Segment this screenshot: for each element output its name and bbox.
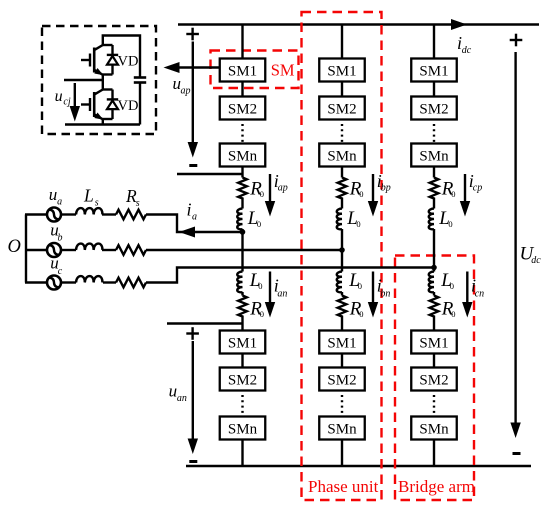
dotted continuation (leg b lower) (341, 395, 343, 415)
svg-text:SM2: SM2 (327, 373, 356, 389)
svg-text:0: 0 (358, 281, 362, 291)
ac source u_a (47, 208, 61, 222)
wire R0-L0 (leg a upper) (241, 200, 243, 209)
svg-text:SM1: SM1 (327, 64, 356, 80)
node b junction (339, 247, 345, 253)
wire: top bus to SM1 (leg c) (433, 25, 435, 59)
svg-text:bn: bn (380, 288, 390, 299)
resistor Rs (phase b) (116, 245, 146, 255)
SMn box (leg b lower) (319, 417, 365, 440)
svg-text:VD: VD (118, 54, 139, 70)
wire SM1-SM2 (leg c lower) (433, 354, 435, 368)
svg-text:cp: cp (473, 183, 482, 194)
svg-text:SMn: SMn (228, 149, 258, 165)
resistor Rs (phase a) (116, 210, 146, 220)
wire SM1-SM2 (leg b upper) (341, 82, 343, 97)
wire L0-R0 (leg b lower) (341, 292, 343, 296)
svg-text:ap: ap (278, 183, 288, 194)
SMn box (leg a upper) (220, 144, 266, 167)
current arrow i_cn (466, 272, 468, 305)
SM1 box (leg b lower) (319, 331, 365, 354)
svg-text:SM1: SM1 (228, 336, 257, 352)
current arrowhead i_a (179, 227, 195, 238)
inductor L0 (leg a lower) (237, 272, 242, 293)
wire SMn-bottom bus (leg a) (241, 440, 243, 467)
inductor L0 (leg b upper) (337, 209, 342, 230)
svg-text:an: an (277, 288, 287, 299)
inductor L0 (leg b lower) (337, 272, 342, 293)
tap bar lower (leg a) (167, 322, 243, 324)
plus terminal u_an (186, 327, 199, 340)
resistor Rs (phase c) (116, 278, 146, 288)
SM2 box (leg b upper) (319, 97, 365, 120)
wire R0-L0 (leg b upper) (341, 200, 343, 209)
dotted continuation (leg c upper) (433, 124, 435, 142)
SM1 box (leg c lower) (411, 331, 457, 354)
svg-text:SM1: SM1 (327, 336, 356, 352)
svg-text:0: 0 (260, 309, 264, 319)
wire R0-SM1 (leg c lower) (433, 318, 435, 331)
inductor L0 (leg c upper) (429, 209, 434, 230)
SMn box (leg a lower) (220, 417, 266, 440)
svg-text:VD: VD (118, 98, 139, 114)
wire Rs to node c (phase c) (146, 268, 434, 283)
wire source b to Ls (61, 249, 77, 251)
svg-text:0: 0 (257, 219, 261, 229)
inductor Ls (phase c) (76, 276, 102, 282)
svg-text:s: s (95, 197, 99, 208)
SM1 box (leg a upper) (220, 59, 266, 82)
SM2 box (leg a upper) (220, 97, 266, 120)
inductor L0 (leg a upper) (237, 209, 242, 230)
svg-text:b: b (58, 232, 63, 243)
red dashed box Phase unit (302, 12, 382, 500)
wire Ls to Rs (phase a) (102, 213, 116, 215)
bottom DC bus (186, 465, 531, 468)
svg-text:SMn: SMn (228, 422, 258, 438)
svg-text:u: u (49, 185, 58, 204)
diode VD1 (103, 45, 118, 75)
submodule detail dashed box (42, 26, 156, 134)
svg-text:s: s (136, 198, 140, 209)
current arrow i_ap (269, 174, 271, 203)
svg-text:SM1: SM1 (228, 64, 257, 80)
wire source a to Ls (61, 213, 77, 215)
svg-text:0: 0 (451, 189, 455, 199)
wire SMn-R0 (leg b upper) (341, 167, 343, 178)
minus terminal bottom right (513, 452, 521, 455)
wire SM1-SM2 (leg c upper) (433, 82, 435, 97)
wire Rs to node b (146, 249, 342, 251)
svg-text:SMn: SMn (327, 422, 357, 438)
SMn box (leg b upper) (319, 144, 365, 167)
svg-text:0: 0 (448, 219, 452, 229)
SM1 box (leg a lower) (220, 331, 266, 354)
red dashed box SM (211, 51, 299, 89)
node c junction (431, 265, 437, 271)
u_ap measurement arrow (192, 42, 194, 146)
U_dc measurement arrow (514, 52, 516, 425)
svg-text:0: 0 (260, 189, 264, 199)
wire R0-SM1 (leg b lower) (341, 318, 343, 331)
wire Ls to Rs (phase b) (102, 249, 116, 251)
svg-text:Phase unit: Phase unit (308, 477, 379, 496)
wire SM1-SM2 (leg a lower) (241, 354, 243, 368)
wire L0-junction (leg c) (433, 229, 435, 272)
wire SM1-SM2 (leg b lower) (341, 354, 343, 368)
dotted continuation (leg a lower) (241, 395, 243, 415)
wire: inset top rail (103, 36, 140, 78)
pointer arrow SM1 to detail (176, 66, 220, 68)
svg-text:0: 0 (356, 219, 360, 229)
svg-text:cn: cn (475, 288, 484, 299)
svg-text:a: a (57, 197, 62, 208)
SM2 box (leg a lower) (220, 368, 266, 391)
wire L0-junction (leg a) (241, 229, 243, 272)
wire SMn-bottom bus (leg c) (433, 440, 435, 467)
SM1 box (leg c upper) (411, 59, 457, 82)
ac source u_c (47, 276, 61, 290)
capacitor C (134, 78, 146, 125)
SM1 box (leg b upper) (319, 59, 365, 82)
wire Rs to bend (phase a) (146, 215, 243, 233)
node a junction (240, 229, 246, 235)
u_cj measurement arrow (74, 83, 76, 109)
wire Ls to Rs (phase c) (103, 281, 116, 283)
svg-text:dc: dc (531, 255, 541, 266)
resistor R0 (leg a lower) (238, 296, 247, 318)
wire: top bus to SM1 (leg a) (241, 25, 243, 59)
left neutral bus wire (25, 215, 27, 283)
SM2 box (leg b lower) (319, 368, 365, 391)
resistor R0 (leg a upper) (238, 178, 247, 200)
wire L0-R0 (leg c lower) (433, 292, 435, 296)
wire source c to Ls (61, 281, 77, 283)
i_dc arrowhead on top bus (451, 19, 467, 30)
ac source u_b (47, 243, 61, 257)
svg-text:cj: cj (63, 97, 70, 108)
SMn box (leg c lower) (411, 417, 457, 440)
svg-text:SM2: SM2 (419, 102, 448, 118)
svg-text:ap: ap (181, 85, 191, 96)
wire: inset bottom rail (65, 123, 140, 125)
svg-text:bp: bp (381, 183, 391, 194)
tap bar upper (leg a) (177, 173, 243, 175)
minus terminal u_an (189, 460, 197, 463)
diode VD2 (103, 90, 118, 120)
svg-text:SM2: SM2 (228, 102, 257, 118)
svg-text:0: 0 (359, 189, 363, 199)
top DC bus (178, 23, 539, 26)
plus terminal top right (510, 34, 523, 47)
svg-text:dc: dc (462, 45, 472, 56)
resistor R0 (leg b lower) (338, 296, 347, 318)
dotted continuation (leg c lower) (433, 395, 435, 415)
svg-text:an: an (177, 393, 187, 404)
wire R0-SM1 (leg a lower) (241, 318, 243, 331)
svg-text:SMn: SMn (419, 149, 449, 165)
resistor R0 (leg c upper) (430, 178, 439, 200)
wire SMn-bottom bus (leg b) (341, 440, 343, 467)
dotted continuation (leg b upper) (341, 124, 343, 142)
u_an measurement arrow (192, 341, 194, 441)
svg-text:i: i (187, 200, 192, 220)
wire neutral to source a (25, 213, 48, 215)
SM2 box (leg c lower) (411, 368, 457, 391)
current arrow i_an (269, 272, 271, 305)
wire: inset mid rail (64, 79, 103, 81)
current arrow i_bp (372, 174, 374, 203)
svg-text:SM1: SM1 (419, 64, 448, 80)
red dashed box Bridge arm (395, 256, 474, 501)
plus terminal u_ap (186, 28, 199, 41)
resistor R0 (leg b upper) (338, 178, 347, 200)
svg-text:SMn: SMn (419, 422, 449, 438)
svg-text:0: 0 (359, 309, 363, 319)
wire neutral to source c (25, 281, 48, 283)
svg-text:u: u (169, 382, 178, 401)
resistor R0 (leg c lower) (430, 296, 439, 318)
svg-text:SM: SM (271, 61, 295, 80)
inductor Ls (phase b) (76, 244, 102, 250)
dotted continuation (leg a upper) (241, 124, 243, 142)
svg-text:0: 0 (450, 281, 454, 291)
wire SMn-R0 (leg a upper) (241, 167, 243, 178)
wire R0-L0 (leg c upper) (433, 200, 435, 209)
svg-text:0: 0 (451, 309, 455, 319)
wire neutral to source b (25, 249, 48, 251)
wire: top bus to SM1 (leg b) (341, 25, 343, 59)
svg-text:0: 0 (258, 281, 262, 291)
wire SM1-SM2 (leg a upper) (241, 82, 243, 97)
svg-text:O: O (8, 237, 21, 257)
SM2 box (leg c upper) (411, 97, 457, 120)
wire L0-R0 (leg a lower) (241, 292, 243, 296)
transistor VT2 (81, 80, 103, 125)
SMn box (leg c upper) (411, 144, 457, 167)
current arrow i_cp (464, 174, 466, 203)
svg-text:SM2: SM2 (327, 102, 356, 118)
svg-text:L: L (83, 186, 94, 206)
svg-text:a: a (192, 212, 197, 223)
svg-text:SM2: SM2 (419, 373, 448, 389)
wire L0-junction (leg b) (341, 229, 343, 272)
minus terminal u_ap (189, 164, 197, 167)
inductor L0 (leg c lower) (429, 272, 434, 293)
current arrow i_bn (372, 272, 374, 305)
svg-text:SM1: SM1 (419, 336, 448, 352)
wire SMn-R0 (leg c upper) (433, 167, 435, 178)
svg-text:c: c (58, 266, 63, 277)
svg-text:Bridge arm: Bridge arm (398, 477, 475, 496)
svg-text:SMn: SMn (327, 149, 357, 165)
svg-text:u: u (55, 88, 63, 105)
transistor VT1 (81, 45, 103, 80)
svg-text:SM2: SM2 (228, 373, 257, 389)
inductor Ls (phase a) (76, 208, 102, 214)
